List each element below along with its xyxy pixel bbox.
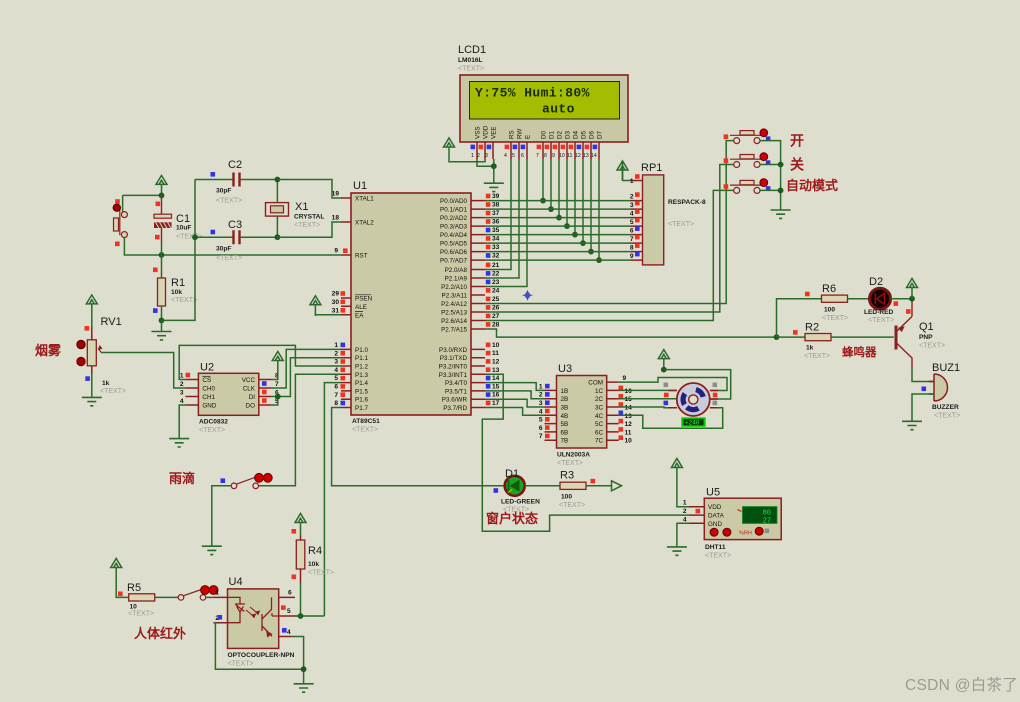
svg-text:23: 23 [492,279,500,286]
svg-text:7C: 7C [595,438,604,445]
junction motor VCC [661,367,667,373]
svg-text:D5: D5 [581,130,588,139]
svg-text:+240: +240 [685,420,700,427]
buzzer BUZ1 [922,362,961,420]
capacitor C1 10uF [154,195,202,255]
junction U4 emitter/cathode [301,666,307,672]
wire crystal to XTAL2 [277,222,341,237]
svg-text:7: 7 [275,381,279,388]
svg-text:19: 19 [332,191,340,198]
svg-text:6: 6 [521,153,524,159]
svg-text:14: 14 [625,405,633,412]
svg-text:关: 关 [790,157,804,173]
svg-text:P1.0: P1.0 [355,347,368,354]
svg-text:6: 6 [288,590,292,597]
svg-text:1: 1 [215,590,219,597]
label auto-mode [786,178,838,193]
LED D2 LED-RED [864,276,911,324]
junction R4/opto/P1.4 [298,613,304,619]
svg-text:3B: 3B [561,405,569,412]
wire U3 3C to motor [619,406,677,409]
svg-text:4: 4 [334,367,338,374]
svg-text:1: 1 [539,383,543,390]
wire U2 CLK to P1.0 [272,349,341,388]
svg-text:烟雾: 烟雾 [35,343,62,358]
capacitor C2 30pF [195,159,277,205]
power symbol R4 [295,514,306,534]
svg-text:<TEXT>: <TEXT> [128,611,154,618]
svg-text:U3: U3 [558,363,572,375]
wire U3 4C to motor (bottom loop) [619,408,723,428]
svg-text:6: 6 [539,425,543,432]
svg-text:BUZZER: BUZZER [932,404,959,411]
wire rain switch to P1.3 [259,374,342,486]
svg-text:6: 6 [334,384,338,391]
wire crystal to XTAL1 [277,180,341,199]
wire LCD D4 down to P0.4 rail [574,159,576,235]
wire DHT11 GND to ground [677,523,689,547]
svg-text:15: 15 [625,396,633,403]
junction K2 rail [778,162,784,168]
svg-text:13: 13 [625,413,633,420]
svg-text:80: 80 [763,510,771,518]
ground symbol U4 [294,684,314,692]
svg-text:11: 11 [625,429,632,436]
wire D1 to R3 [525,485,560,487]
svg-text:U1: U1 [353,180,367,192]
svg-text:P3.2/INT0: P3.2/INT0 [439,364,468,371]
label human-IR [134,626,186,641]
svg-text:1: 1 [334,342,338,349]
wire RV1 wiper to U2 CH0 [101,353,185,389]
svg-text:PNP: PNP [919,334,933,341]
U1 left pin state squares [341,248,348,405]
wire P3.7 to U3 4B [485,408,545,416]
svg-text:37: 37 [492,210,500,217]
svg-text:1: 1 [683,500,687,507]
svg-text:9: 9 [630,253,634,260]
svg-text:13: 13 [583,153,589,159]
optocoupler U4 OPTOCOUPLER-NPN body [213,576,295,668]
switch IR sensor [178,586,218,601]
svg-text:COM: COM [588,380,603,387]
svg-text:16: 16 [492,392,500,399]
svg-text:36: 36 [492,219,500,226]
svg-text:<TEXT>: <TEXT> [228,661,254,668]
svg-text:12: 12 [575,153,581,159]
svg-text:U5: U5 [706,487,720,499]
svg-text:27: 27 [492,313,500,320]
svg-text:9: 9 [552,153,555,159]
svg-text:XTAL1: XTAL1 [355,196,374,203]
svg-text:P3.3/INT1: P3.3/INT1 [439,372,468,379]
wire P3.3 to DHT11 DATA [482,374,688,531]
svg-text:P0.1/AD1: P0.1/AD1 [440,207,467,214]
power symbol for LCD VDD [444,138,455,158]
junction crystal top [275,177,281,183]
svg-text:P3.6/WR: P3.6/WR [442,397,468,404]
svg-text:12: 12 [625,421,633,428]
wire LCD RW to P2.1 [485,159,519,278]
power symbol Q1 [907,279,918,299]
wire P0 rails U1 to RP1 [485,201,631,261]
svg-text:P3.4/T0: P3.4/T0 [445,380,468,387]
svg-text:9: 9 [623,375,627,382]
U1 left pin numbers [332,191,340,408]
svg-text:3C: 3C [595,405,604,412]
svg-text:P0.4/AD4: P0.4/AD4 [440,232,467,239]
ground symbol reset [161,320,163,331]
label buzzer-cn [842,345,877,359]
wire P3.6 to U3 3B [485,399,545,407]
wire buttons right rail to ground [760,141,781,210]
wire P3.4 to U3 1B [485,383,545,391]
U1 overlines PSEN/EA [355,295,371,312]
svg-text:7: 7 [536,153,539,159]
RP1 pin numbers [630,178,634,260]
svg-text:R6: R6 [822,283,836,295]
svg-text:30: 30 [332,299,340,306]
svg-text:10k: 10k [308,561,319,568]
svg-text:8: 8 [334,400,338,407]
svg-text:<TEXT>: <TEXT> [822,315,848,322]
wire RP1 pin1 to power [623,161,631,181]
junctions LCD data on P0 rails [540,198,602,263]
svg-text:<TEXT>: <TEXT> [100,388,126,395]
ground symbol DHT11 [667,547,687,555]
RP1 pin state squares [635,174,640,256]
wire power to R4 [300,534,302,537]
svg-text:C3: C3 [228,219,242,231]
power symbol motor [658,350,669,370]
svg-text:R1: R1 [171,277,185,289]
svg-text:CH1: CH1 [202,394,215,401]
watermark CSDN [905,676,1018,694]
power symbol EA [310,296,321,316]
U1 right pin state squares [486,194,491,406]
svg-text:<TEXT>: <TEXT> [668,221,694,228]
LCD pin name labels (vertical) [475,125,604,139]
svg-text:DI: DI [249,394,256,401]
wire K3 to P2.6 [485,190,734,320]
svg-text:CSDN @白茶了: CSDN @白茶了 [905,676,1018,694]
svg-text:14: 14 [591,153,597,159]
node marker origin (blue diamond) [523,290,533,300]
label close [790,157,804,173]
svg-text:VSS: VSS [475,126,482,139]
svg-text:6B: 6B [561,429,569,436]
wire P3.5 to U3 2B [485,391,545,399]
wire LCD VDD to power [449,158,485,162]
wire motor VCC rail [664,370,731,399]
svg-text:LCD1: LCD1 [458,44,486,56]
svg-text:5: 5 [630,219,634,226]
ground symbol U2 [169,439,189,447]
svg-text:CRYSTAL: CRYSTAL [294,214,324,221]
svg-text:RW: RW [517,129,524,139]
svg-text:D0: D0 [541,130,548,139]
svg-text:7: 7 [630,236,634,243]
wire DHT11 VDD to power [677,479,689,507]
svg-text:VDD: VDD [483,125,490,139]
ground symbol rain [202,546,222,554]
svg-text:ULN2003A: ULN2003A [557,452,590,459]
svg-text:4B: 4B [561,413,569,420]
svg-text:P1.3: P1.3 [355,372,368,379]
svg-text:3: 3 [180,390,184,397]
U1 left pin stubs [341,198,351,408]
RP1 pin stubs [631,181,643,261]
resistor R5 10 [118,582,155,618]
resistor R2 1k [793,322,831,361]
wire LCD VEE to ground [493,159,495,183]
wire IR switch to U4 anode [206,596,214,598]
U1 pin names inside [355,196,374,413]
svg-text:2: 2 [477,153,480,159]
svg-text:5: 5 [512,153,515,159]
humidity sensor U5 DHT11 [683,487,781,560]
svg-text:R5: R5 [127,582,141,594]
svg-text:8: 8 [544,153,547,159]
svg-text:13: 13 [492,367,500,374]
svg-text:5: 5 [334,375,338,382]
svg-text:9: 9 [334,248,338,255]
svg-text:21: 21 [492,262,500,269]
wire BUZ1 to ground [912,394,934,421]
svg-text:LED-GREEN: LED-GREEN [501,499,540,506]
svg-text:P0.2/AD2: P0.2/AD2 [440,215,467,222]
svg-text:PSEN: PSEN [355,296,373,303]
svg-text:X1: X1 [295,201,308,213]
LCD pin stubs [477,142,599,159]
potentiometer RV1 1k (smoke sensor) [77,316,126,395]
wire VCC node to button top [123,195,162,213]
junction R1 bottom [159,318,165,324]
label open [790,133,804,149]
switch rain sensor [221,473,273,488]
microcontroller U1 AT89C51 body [351,180,471,434]
junction K3 rail [778,188,784,194]
ground symbol RV1 [82,397,102,405]
LCD display LCD1 body [460,75,628,142]
U3 pin names [561,388,569,445]
push button K1 (open) [724,129,771,144]
svg-text:CLK: CLK [243,386,256,393]
svg-text:7: 7 [539,433,543,440]
LCD pin numbers 1-14 [471,153,597,159]
resistor pack RP1 RESPACK-8 [641,162,706,265]
wire D2 to Q1 emitter node [891,298,913,300]
svg-text:<TEXT>: <TEXT> [868,317,894,324]
wire R3 to terminal [586,485,612,487]
ground symbol BUZ1 [902,421,922,429]
svg-text:7B: 7B [561,438,569,445]
svg-text:P1.2: P1.2 [355,364,368,371]
svg-text:5: 5 [539,417,543,424]
resistor R1 10k [153,255,197,320]
LCD1 label [458,44,486,73]
svg-text:DO: DO [246,403,256,410]
svg-text:<TEXT>: <TEXT> [216,198,242,205]
svg-text:<TEXT>: <TEXT> [919,343,945,350]
svg-text:1k: 1k [102,380,110,387]
wire R1 bottom to C2/C3 ground line [162,180,196,321]
wire Q1 collector to BUZ1 [912,368,934,382]
svg-text:ADC0832: ADC0832 [199,419,228,426]
svg-text:D6: D6 [589,130,596,139]
svg-text:Y:75% Humi:80%: Y:75% Humi:80% [475,86,590,101]
wire R4 bottom to opto collector node [295,583,324,616]
svg-text:5: 5 [287,608,291,615]
wire rain switch to ground [212,486,231,546]
svg-text:<TEXT>: <TEXT> [352,427,378,434]
svg-text:D3: D3 [565,130,572,139]
svg-text:D1: D1 [549,130,556,139]
svg-text:2: 2 [539,392,543,399]
svg-text:R2: R2 [805,322,819,334]
svg-text:OPTOCOUPLER-NPN: OPTOCOUPLER-NPN [228,652,295,659]
svg-text:U2: U2 [200,362,214,374]
wire K2 to P2.5 [485,165,734,313]
resistor R4 10k [292,529,335,583]
LED D1 LED-GREEN [494,468,541,514]
wire U3 COM to motor [619,378,727,391]
U2 pin numbers [180,373,184,406]
transistor Q1 PNP [896,301,945,368]
darlington array U3 ULN2003A body [557,363,607,467]
wire U2 DI to P1.1 [272,358,341,397]
svg-text:14: 14 [492,375,500,382]
svg-text:1B: 1B [561,388,569,395]
svg-text:10uF: 10uF [176,225,191,232]
svg-text:P2.7/A15: P2.7/A15 [441,327,467,334]
ground symbol LCD [484,183,504,191]
svg-text:CS: CS [202,377,211,384]
label raindrop [169,471,195,486]
svg-text:D2: D2 [557,130,564,139]
svg-text:RS: RS [509,130,516,139]
svg-text:2B: 2B [561,396,569,403]
wire R2 to Q1 base [831,336,894,338]
svg-text:15: 15 [492,383,500,390]
svg-text:XTAL2: XTAL2 [355,220,374,227]
svg-text:<TEXT>: <TEXT> [559,502,585,509]
svg-text:AT89C51: AT89C51 [352,418,380,425]
power symbol reset VCC [156,175,167,195]
svg-text:<TEXT>: <TEXT> [216,255,242,262]
junction C3 ground line [192,234,198,240]
svg-text:4C: 4C [595,413,604,420]
ground symbol buttons [771,210,791,218]
resistor R6 100 [805,283,848,322]
svg-text:25: 25 [492,296,500,303]
push button reset [113,199,127,246]
svg-text:P2.2/A10: P2.2/A10 [441,284,467,291]
svg-text:LED-RED: LED-RED [864,309,894,316]
capacitor C3 30pF [195,219,277,262]
svg-text:1: 1 [471,153,474,159]
svg-text:RESPACK-8: RESPACK-8 [668,199,706,206]
wire LCD RS to P2.0 [485,159,511,270]
wire LCD D2 down to P0.2 rail [558,159,560,218]
wire U4 collector to node [295,615,301,617]
svg-text:P3.0/RXD: P3.0/RXD [439,347,467,354]
svg-text:32: 32 [492,253,500,260]
svg-text:100: 100 [824,307,835,314]
junction DI/DO [275,394,281,400]
U1 right pin stubs [471,201,485,408]
svg-text:12: 12 [492,359,500,366]
svg-text:DHT11: DHT11 [705,544,726,551]
svg-text:2: 2 [630,194,634,201]
ADC U2 ADC0832 body [198,362,258,435]
junction crystal bottom [275,234,281,240]
wire LCD VSS to VEE [477,159,494,166]
svg-text:P1.4: P1.4 [355,380,368,387]
svg-text:P0.6/AD6: P0.6/AD6 [440,249,467,256]
junction VSS/VEE [491,163,497,169]
svg-text:P0.3/AD3: P0.3/AD3 [440,224,467,231]
svg-text:Q1: Q1 [919,321,934,333]
svg-text:<TEXT>: <TEXT> [458,66,484,73]
svg-text:P1.1: P1.1 [355,355,368,362]
wire U4 cathode to emitter ground [213,623,303,670]
svg-text:26: 26 [492,305,500,312]
U1 right pin numbers [492,193,500,407]
push button K2 (close) [724,153,771,168]
svg-text:16: 16 [625,388,633,395]
svg-text:1k: 1k [806,345,814,352]
svg-text:5C: 5C [595,421,604,428]
U3 pin state squares [545,384,623,440]
svg-text:D1: D1 [505,468,519,480]
svg-text:CH0: CH0 [202,386,215,393]
junction R2/R6 [774,334,780,340]
wire U2 VCC to power [272,372,278,380]
svg-text:11: 11 [567,153,572,159]
svg-text:E: E [525,135,532,139]
svg-text:<TEXT>: <TEXT> [171,297,197,304]
label smoke [35,343,62,358]
resistor R3 100 [559,470,595,510]
wire LCD E to P2.2 [485,159,527,287]
svg-text:6: 6 [630,228,634,235]
svg-text:4: 4 [180,398,184,405]
svg-text:U4: U4 [229,576,243,588]
svg-text:27: 27 [763,518,771,526]
svg-text:<TEXT>: <TEXT> [934,413,960,420]
svg-text:VEE: VEE [491,126,498,139]
svg-text:4: 4 [287,629,291,636]
svg-text:P1.7: P1.7 [355,405,368,412]
svg-text:30pF: 30pF [216,246,231,253]
svg-text:VCC: VCC [242,377,256,384]
U2 pin state squares [186,373,267,403]
svg-text:P2.5/A13: P2.5/A13 [441,310,467,317]
wire LCD D7 down to P0.7 rail [598,159,600,260]
wire LCD D3 down to P0.3 rail [566,159,568,226]
wire R5 to IR switch [155,596,179,598]
terminal arrow (window output) [612,481,622,491]
svg-text:EA: EA [355,312,364,319]
svg-text:P0.5/AD5: P0.5/AD5 [440,241,467,248]
svg-text:P2.6/A14: P2.6/A14 [441,318,467,325]
svg-text:人体红外: 人体红外 [134,626,186,641]
svg-text:D7: D7 [597,130,604,139]
svg-text:10: 10 [559,153,565,159]
svg-text:<TEXT>: <TEXT> [294,222,320,229]
svg-text:P3.5/T1: P3.5/T1 [445,388,468,395]
